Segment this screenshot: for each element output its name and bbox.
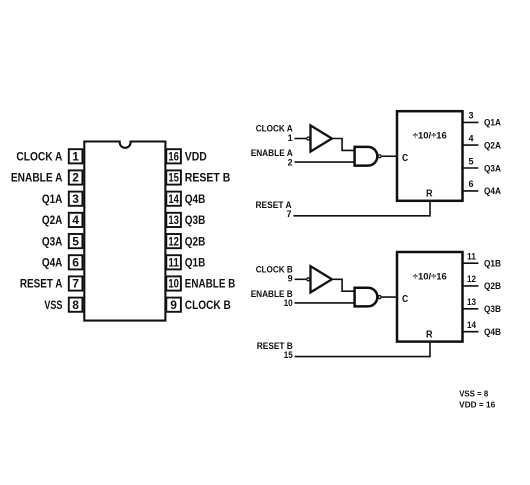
svg-text:15: 15 bbox=[168, 171, 179, 185]
svg-text:2: 2 bbox=[72, 171, 79, 185]
wire enable B input bbox=[295, 302, 355, 304]
pin 1 box bbox=[69, 149, 83, 163]
svg-text:Q3B: Q3B bbox=[185, 213, 206, 227]
pin 7 box bbox=[69, 276, 83, 290]
svg-text:3: 3 bbox=[72, 192, 79, 206]
pin 15 box bbox=[166, 170, 181, 184]
wire output stub pin 3 bbox=[462, 121, 478, 123]
svg-text:11: 11 bbox=[467, 252, 476, 262]
svg-text:8: 8 bbox=[72, 298, 79, 312]
svg-text:C: C bbox=[402, 294, 408, 305]
wire buffer B output to gate bbox=[332, 279, 355, 291]
svg-text:ENABLE B: ENABLE B bbox=[185, 277, 236, 291]
svg-text:4: 4 bbox=[468, 133, 473, 143]
svg-text:ENABLE A: ENABLE A bbox=[11, 171, 63, 185]
buffer B triangle bbox=[311, 266, 332, 292]
svg-text:VDD = 16: VDD = 16 bbox=[459, 400, 496, 409]
IC package U1 body (DIP-16 outline with notch) bbox=[84, 142, 165, 321]
wire output stub pin 13 bbox=[462, 308, 478, 310]
bubble on buffer A input bbox=[307, 137, 310, 140]
svg-text:9: 9 bbox=[170, 298, 177, 312]
svg-text:1: 1 bbox=[72, 150, 79, 164]
svg-text:10: 10 bbox=[284, 298, 293, 308]
wire enable A input bbox=[295, 161, 355, 163]
svg-text:11: 11 bbox=[168, 256, 179, 270]
svg-text:R: R bbox=[426, 329, 433, 340]
nand gate B output bubble bbox=[378, 296, 381, 299]
svg-text:Q1B: Q1B bbox=[484, 259, 501, 269]
wire gate A output to counter bbox=[382, 155, 397, 157]
buffer A triangle bbox=[311, 125, 332, 151]
svg-text:6: 6 bbox=[468, 179, 473, 189]
svg-text:RESET B: RESET B bbox=[185, 171, 231, 185]
svg-text:Q3A: Q3A bbox=[484, 163, 501, 173]
svg-text:15: 15 bbox=[284, 350, 293, 360]
svg-text:÷10/÷16: ÷10/÷16 bbox=[413, 131, 447, 141]
pin 14 box bbox=[166, 192, 181, 206]
svg-text:Q2B: Q2B bbox=[484, 281, 501, 291]
svg-text:13: 13 bbox=[168, 213, 179, 227]
svg-text:Q2B: Q2B bbox=[185, 234, 206, 248]
svg-text:÷10/÷16: ÷10/÷16 bbox=[413, 271, 447, 281]
wire clock B input bbox=[295, 278, 307, 280]
wire reset A to counter R bbox=[293, 201, 430, 216]
wire gate B output to counter bbox=[382, 296, 397, 298]
svg-text:7: 7 bbox=[286, 209, 291, 219]
svg-text:Q1B: Q1B bbox=[185, 256, 206, 270]
nand gate A output bubble bbox=[378, 155, 381, 158]
pin 12 box bbox=[166, 234, 181, 248]
pin 4 box bbox=[69, 213, 83, 227]
wire output stub pin 5 bbox=[462, 167, 478, 169]
wire output stub pin 4 bbox=[462, 144, 478, 146]
pin 10 box bbox=[166, 276, 181, 290]
pin 11 box bbox=[166, 255, 181, 269]
svg-text:Q1A: Q1A bbox=[42, 192, 63, 206]
wire buffer A output to gate bbox=[332, 139, 355, 151]
svg-text:Q4A: Q4A bbox=[42, 256, 63, 270]
svg-text:5: 5 bbox=[468, 156, 473, 166]
bubble on buffer B input bbox=[307, 278, 310, 281]
wire output stub pin 12 bbox=[462, 285, 478, 287]
wire reset B to counter R bbox=[295, 342, 430, 357]
wire output stub pin 11 bbox=[462, 262, 478, 264]
svg-text:Q1A: Q1A bbox=[484, 118, 501, 128]
nand gate B body bbox=[355, 288, 378, 307]
pin 2 box bbox=[69, 170, 83, 184]
svg-text:4: 4 bbox=[72, 213, 79, 227]
svg-text:VSS = 8: VSS = 8 bbox=[459, 390, 489, 399]
svg-text:16: 16 bbox=[168, 150, 179, 164]
svg-text:13: 13 bbox=[467, 297, 476, 307]
svg-text:2: 2 bbox=[288, 157, 293, 167]
svg-text:9: 9 bbox=[288, 274, 293, 284]
svg-text:10: 10 bbox=[168, 277, 179, 291]
svg-text:7: 7 bbox=[72, 277, 79, 291]
svg-text:12: 12 bbox=[168, 234, 179, 248]
pin 8 box bbox=[69, 298, 83, 312]
svg-text:Q4B: Q4B bbox=[484, 327, 501, 337]
counter block B bbox=[397, 252, 463, 342]
svg-text:14: 14 bbox=[168, 192, 179, 206]
svg-text:Q3A: Q3A bbox=[42, 234, 63, 248]
svg-text:3: 3 bbox=[468, 111, 473, 121]
pin 6 box bbox=[69, 255, 83, 269]
pin 9 box bbox=[166, 298, 181, 312]
svg-text:Q2A: Q2A bbox=[42, 213, 63, 227]
wire clock A input bbox=[295, 138, 307, 140]
svg-text:Q4B: Q4B bbox=[185, 192, 206, 206]
pin 16 box bbox=[166, 149, 181, 163]
pin 5 box bbox=[69, 234, 83, 248]
svg-text:Q4A: Q4A bbox=[484, 186, 501, 196]
svg-text:5: 5 bbox=[72, 234, 79, 248]
svg-text:C: C bbox=[402, 153, 408, 164]
svg-text:CLOCK A: CLOCK A bbox=[16, 150, 62, 164]
svg-text:6: 6 bbox=[72, 256, 79, 270]
svg-text:Q3B: Q3B bbox=[484, 304, 501, 314]
svg-text:14: 14 bbox=[467, 320, 476, 330]
svg-text:VSS: VSS bbox=[44, 298, 62, 312]
pin 13 box bbox=[166, 213, 181, 227]
wire output stub pin 6 bbox=[462, 190, 478, 192]
svg-text:Q2A: Q2A bbox=[484, 140, 501, 150]
wire output stub pin 14 bbox=[462, 331, 478, 333]
svg-text:VDD: VDD bbox=[185, 150, 207, 164]
svg-text:CLOCK B: CLOCK B bbox=[185, 298, 231, 312]
svg-text:12: 12 bbox=[467, 274, 476, 284]
svg-text:1: 1 bbox=[288, 133, 293, 143]
counter block A bbox=[397, 111, 463, 201]
svg-text:R: R bbox=[426, 189, 433, 200]
nand gate A body bbox=[355, 147, 378, 166]
svg-text:RESET A: RESET A bbox=[20, 277, 63, 291]
pin 3 box bbox=[69, 192, 83, 206]
